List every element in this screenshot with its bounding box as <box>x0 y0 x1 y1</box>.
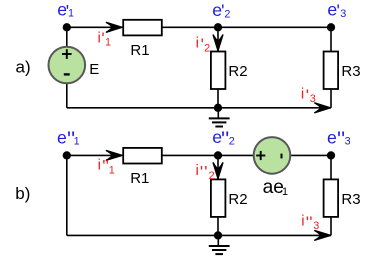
svg-text:3: 3 <box>310 93 316 105</box>
svg-text:i: i <box>98 156 101 173</box>
svg-text:R3: R3 <box>341 63 360 80</box>
svg-text:i: i <box>98 29 101 46</box>
svg-text:i: i <box>195 162 198 179</box>
svg-text:e: e <box>57 128 67 148</box>
svg-text:b): b) <box>15 184 30 203</box>
svg-text:i: i <box>301 85 304 102</box>
svg-text:a): a) <box>16 57 31 76</box>
svg-text:2: 2 <box>204 43 210 55</box>
svg-text:R2: R2 <box>228 191 247 208</box>
svg-text:3: 3 <box>345 136 351 148</box>
svg-text:2: 2 <box>209 170 215 182</box>
svg-text:1: 1 <box>282 186 288 198</box>
svg-text:2: 2 <box>229 136 235 148</box>
svg-text:R3: R3 <box>341 191 360 208</box>
svg-text:R1: R1 <box>130 42 149 59</box>
svg-text:1: 1 <box>109 164 115 176</box>
svg-text:': ' <box>306 86 309 105</box>
svg-text:R2: R2 <box>228 63 247 80</box>
svg-text:R1: R1 <box>130 170 149 187</box>
svg-text:1: 1 <box>105 36 111 48</box>
svg-text:i: i <box>196 34 199 51</box>
svg-text:3: 3 <box>313 220 319 232</box>
svg-text:i: i <box>301 213 304 230</box>
svg-text:2: 2 <box>224 9 230 21</box>
svg-text:E: E <box>89 61 99 78</box>
svg-text:ae: ae <box>263 177 284 198</box>
svg-text:3: 3 <box>340 8 346 20</box>
svg-text:': ' <box>309 213 312 232</box>
svg-text:1: 1 <box>68 8 74 20</box>
svg-text:': ' <box>200 162 203 181</box>
svg-text:1: 1 <box>74 136 80 148</box>
svg-text:e: e <box>327 127 337 147</box>
svg-text:': ' <box>204 162 207 181</box>
